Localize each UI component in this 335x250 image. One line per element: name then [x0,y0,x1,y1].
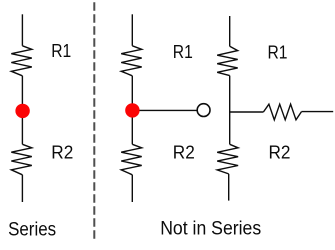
resistor R2 (left, Series) [11,144,32,175]
resistor R1 (middle) [121,46,142,76]
resistor R1 (right) [217,46,238,75]
node dot (red junction, Series) [15,104,29,118]
wire: right column top lead [229,16,231,46]
resistor R1 (left, Series) [11,46,32,76]
wire: tap lead to horizontal resistor [230,111,264,113]
wire: right column bottom lead [228,174,230,201]
wire: left column middle [21,76,23,145]
wire: left column top lead [21,14,23,46]
wire: stub from node to open terminal [132,109,197,111]
wire: right column middle (through tap junction) [229,76,231,145]
resistor R2 (right) [217,144,238,174]
wire: middle column middle [131,76,133,145]
resistor (horizontal, unlabeled) [263,104,301,120]
svg-text:R1: R1 [51,41,71,61]
svg-text:R2: R2 [51,143,73,163]
wire: left column bottom lead [21,175,23,202]
wire: middle column bottom lead [131,175,133,202]
open terminal (circle) [197,104,210,117]
wire: right lead after horizontal resistor [302,111,334,113]
node dot (red junction, middle) [125,103,139,117]
svg-text:R2: R2 [173,142,195,162]
svg-text:Not in Series: Not in Series [160,217,261,239]
dashed divider line [93,2,95,239]
svg-text:R1: R1 [173,42,193,62]
wire: middle column top lead [131,14,133,46]
svg-text:R1: R1 [268,42,288,62]
svg-text:R2: R2 [269,143,291,163]
svg-text:Series: Series [8,218,56,240]
resistor R2 (middle) [121,144,142,175]
